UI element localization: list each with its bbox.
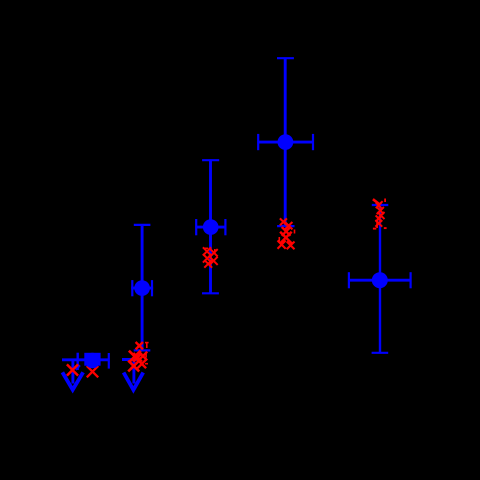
red X marker c: [282, 227, 291, 236]
red X arm stroke 2: [379, 201, 382, 204]
G1 red X1: [67, 364, 78, 375]
red X marker e: [375, 220, 382, 227]
red cap tick 2: [384, 227, 387, 229]
red X marker d: [210, 257, 218, 265]
red cap tick: [145, 342, 149, 344]
G2 circle marker: [134, 280, 150, 296]
red yerr tick: [278, 237, 280, 241]
red X marker a: [280, 218, 287, 225]
G3 right cap: [224, 219, 226, 235]
red X marker a: [376, 203, 382, 209]
red X marker c: [139, 352, 148, 361]
G3 bottom cap: [202, 292, 219, 294]
G1 red X2: [87, 366, 98, 377]
G1 xerr bar: [62, 358, 109, 361]
G3 xerr bar: [196, 226, 225, 229]
G1 arrow chevron: [62, 372, 83, 390]
G4 circle marker: [278, 134, 294, 150]
G3 yerr line: [209, 160, 212, 293]
red yerr tick 2: [145, 353, 147, 357]
G5 right cap: [410, 272, 412, 288]
blue circle markers layer: [85, 134, 388, 368]
G5 circle marker: [372, 272, 388, 288]
red X marker b: [210, 249, 217, 256]
red X marker d: [280, 232, 292, 244]
red X marker e: [138, 360, 147, 369]
red yerr tick: [146, 342, 148, 348]
red yerr tick 2: [376, 221, 378, 229]
red X marker b: [129, 351, 141, 363]
G2 top cap: [134, 224, 151, 226]
G1 small diagonal tick: [76, 365, 80, 369]
red X marker a: [203, 247, 211, 255]
G4 right cap: [312, 134, 314, 150]
red X marker d: [128, 361, 139, 372]
G3 top cap: [202, 159, 219, 161]
G1 square marker: [84, 353, 100, 366]
G3 left cap: [195, 219, 197, 235]
G2 limit xerr bar: [122, 358, 140, 361]
red X marker e: [278, 241, 286, 249]
red X marker f: [133, 353, 142, 362]
G5 xerr bar: [349, 279, 411, 282]
red X marker c: [377, 212, 384, 219]
red X marker b: [377, 207, 384, 214]
G2 right cap: [151, 280, 153, 296]
G5 bottom cap: [372, 352, 389, 354]
G4 left cap: [257, 134, 259, 150]
red X marker e: [204, 260, 212, 268]
G5 top cap: [372, 204, 389, 206]
red yerr tick: [214, 249, 216, 253]
G2 arrow stem: [132, 360, 135, 384]
red cap tick: [373, 228, 376, 230]
G1 left cap tick: [76, 353, 78, 370]
G4 top cap: [277, 57, 294, 59]
G4 xerr bar: [258, 141, 313, 144]
G3 circle marker: [203, 219, 219, 235]
G2 bottom cap: [134, 349, 151, 351]
red X arm stroke: [373, 199, 380, 204]
red X marker b: [285, 222, 292, 229]
red X marker f: [287, 242, 295, 250]
red markers layer: [67, 199, 387, 378]
G5 yerr line: [379, 205, 381, 353]
G2 small tick: [137, 354, 139, 357]
G5 left cap: [348, 272, 350, 288]
G4 bottom cap: [277, 225, 294, 227]
red cap tick: [205, 247, 209, 249]
G2 left cap: [131, 280, 133, 296]
red cap tick 2: [145, 363, 148, 365]
red X marker a: [136, 342, 143, 349]
G4 yerr line: [284, 58, 287, 225]
G2 xerr bar: [131, 287, 153, 290]
G1 arrow stem: [71, 361, 74, 384]
G2 arrow chevron: [124, 373, 144, 390]
red yerr tick 2: [294, 230, 296, 234]
G2 yerr line: [141, 225, 144, 351]
red yerr tick: [384, 199, 386, 203]
red X marker c: [203, 254, 212, 263]
red X marker d: [376, 215, 382, 221]
G1 right cap: [108, 353, 110, 369]
G1 circle marker: [85, 353, 101, 369]
